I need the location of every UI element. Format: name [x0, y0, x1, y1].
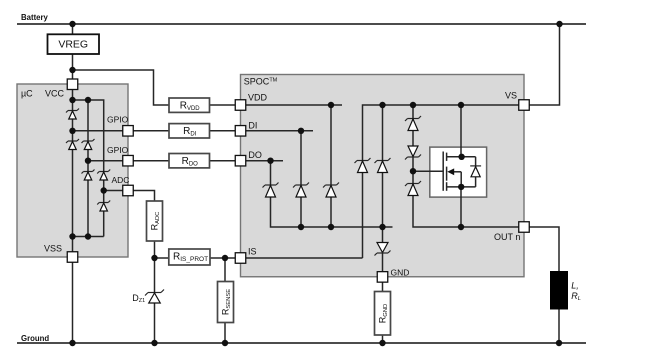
svg-text:DZ1: DZ1 [132, 293, 145, 304]
svg-text:IS: IS [248, 247, 257, 257]
svg-text:Battery: Battery [21, 13, 49, 22]
svg-text:DI: DI [248, 120, 257, 130]
svg-text:OUT n: OUT n [494, 232, 520, 242]
svg-text:VS: VS [505, 90, 517, 100]
svg-text:VDD: VDD [248, 93, 268, 103]
svg-text:µC: µC [21, 89, 33, 99]
svg-text:RL: RL [571, 291, 581, 302]
svg-text:L,: L, [571, 281, 579, 291]
svg-text:VREG: VREG [58, 39, 88, 51]
svg-text:Ground: Ground [21, 334, 49, 343]
svg-text:GPIO: GPIO [107, 114, 129, 124]
svg-text:GPIO: GPIO [107, 145, 129, 155]
svg-text:VSS: VSS [44, 244, 62, 254]
svg-text:DO: DO [248, 150, 262, 160]
svg-text:GND: GND [391, 267, 410, 277]
svg-text:ADC: ADC [112, 175, 130, 185]
svg-text:VCC: VCC [45, 89, 65, 99]
